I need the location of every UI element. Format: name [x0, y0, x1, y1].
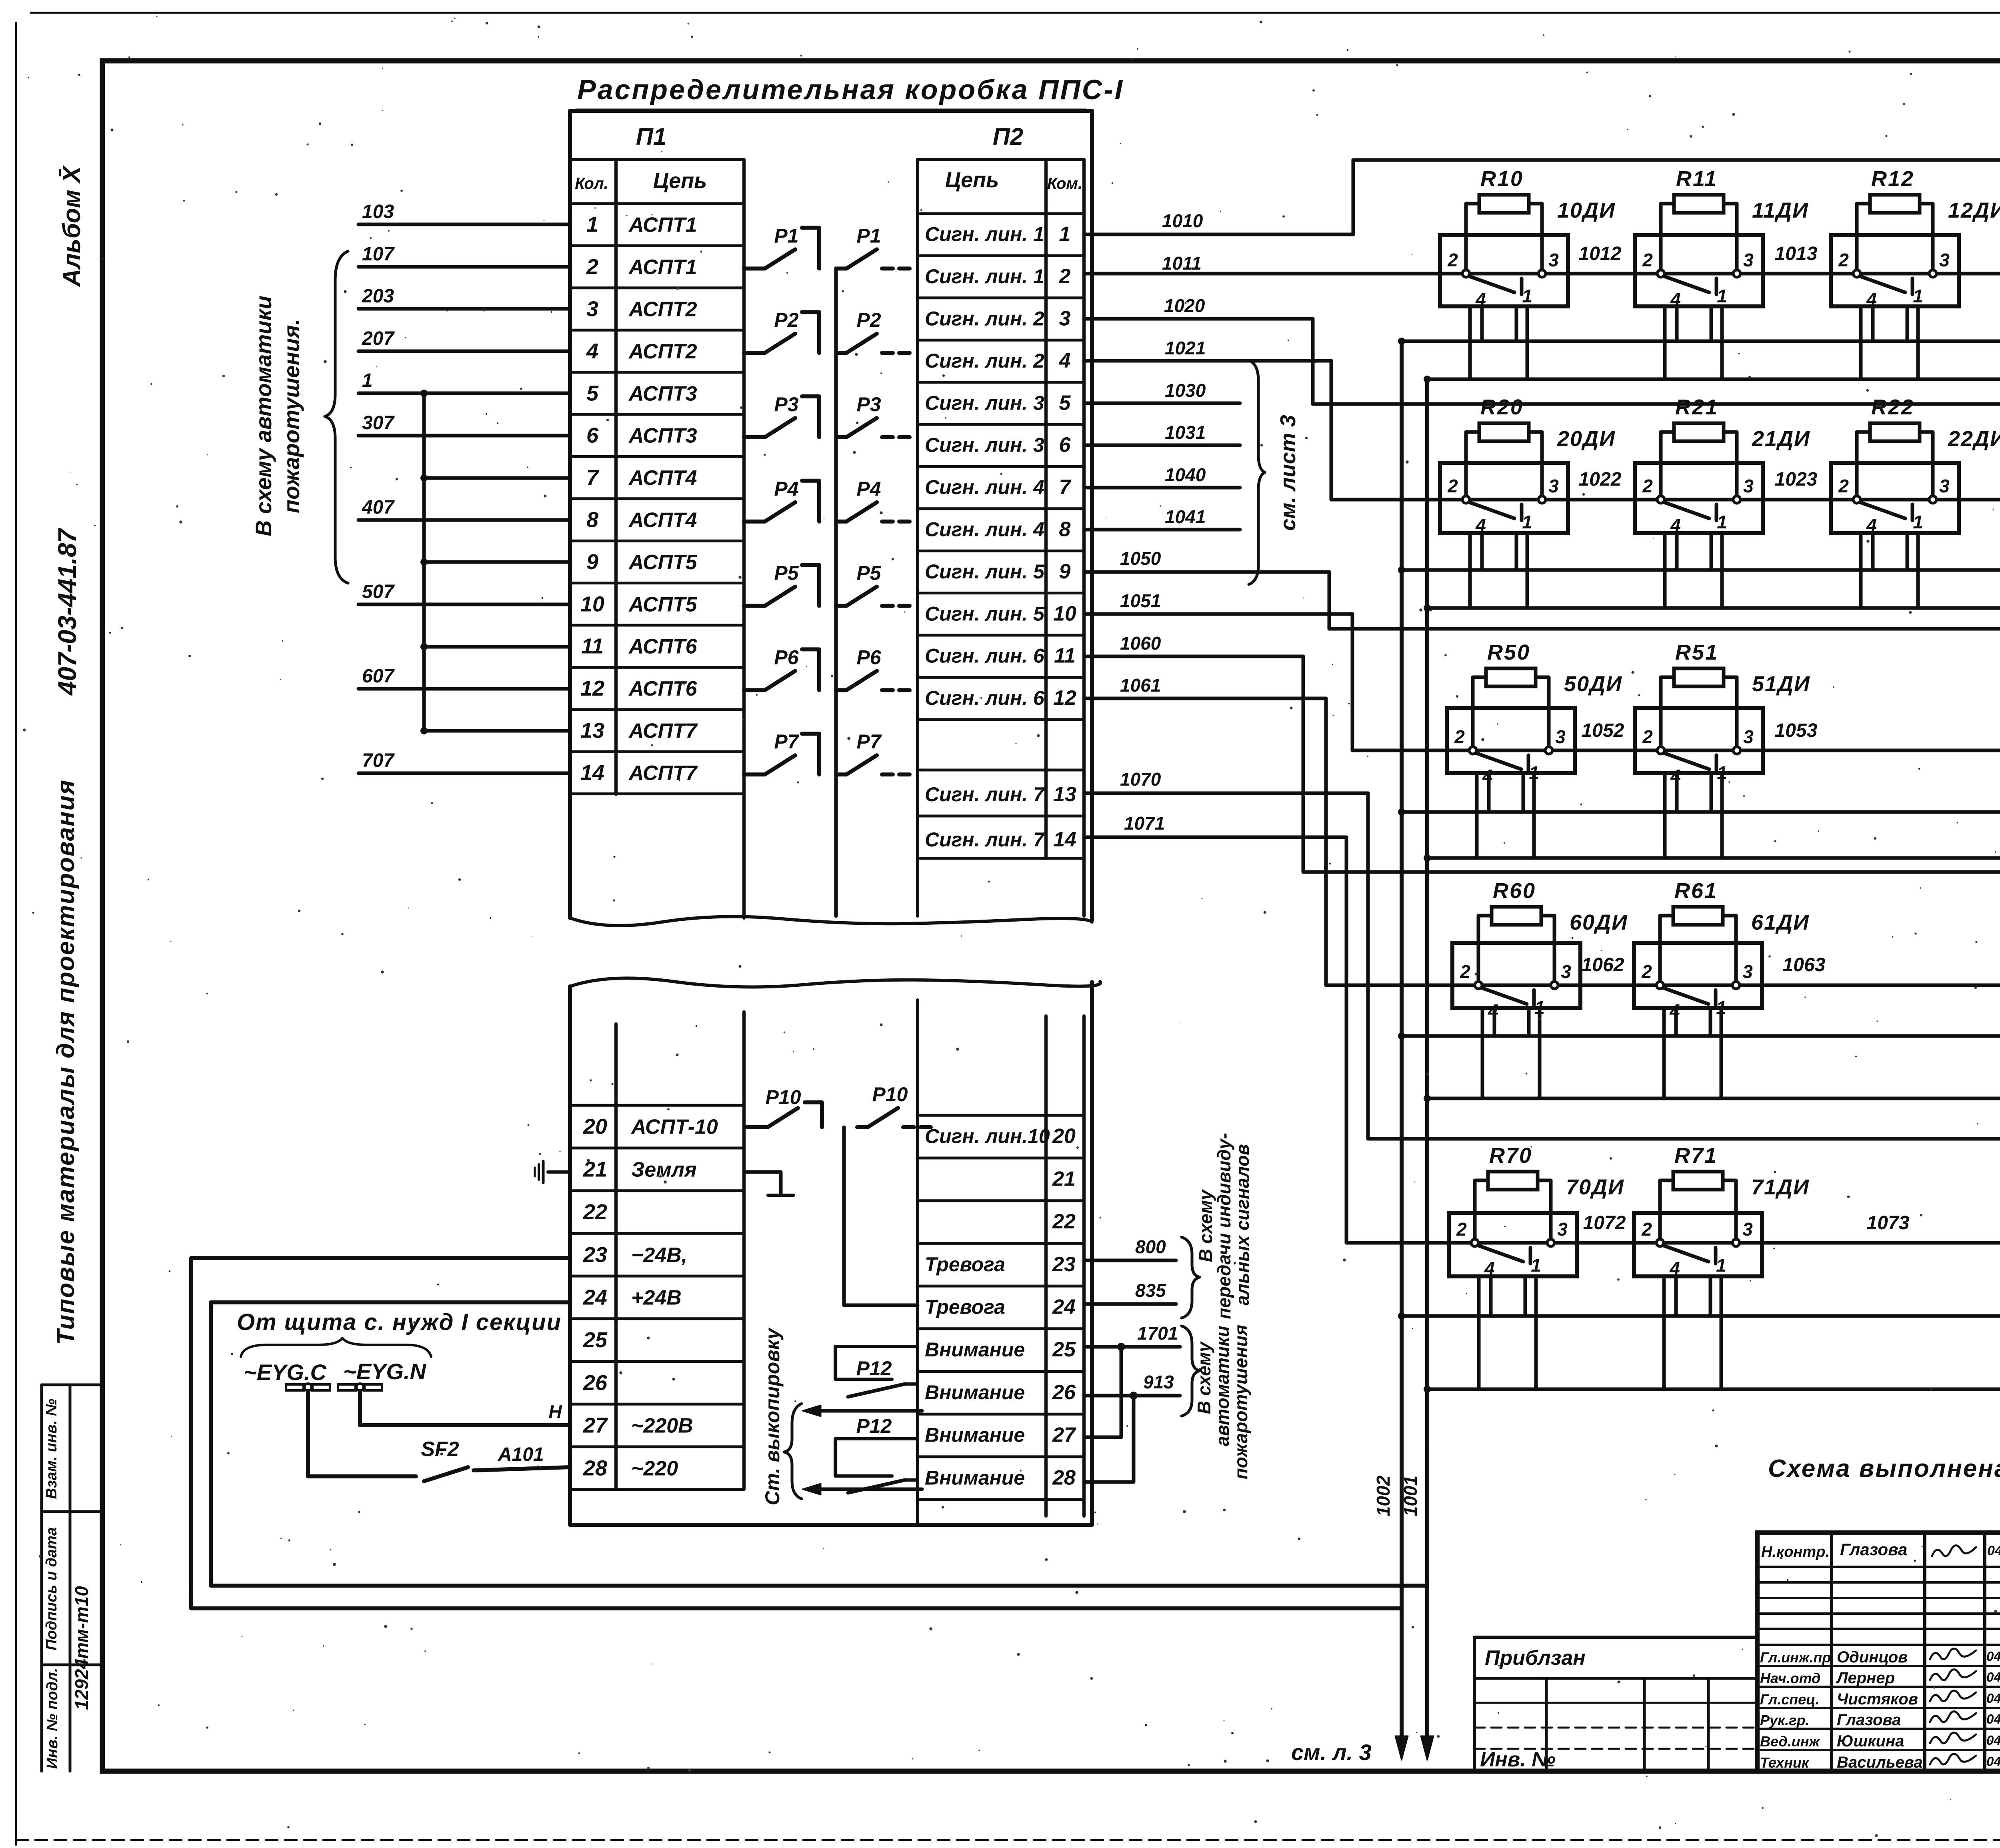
- svg-text:6: 6: [1059, 434, 1071, 457]
- svg-text:R50: R50: [1487, 640, 1530, 664]
- svg-text:1030: 1030: [1165, 380, 1206, 401]
- svg-text:3: 3: [1743, 726, 1754, 747]
- svg-text:Р4: Р4: [856, 478, 881, 500]
- svg-text:04.87: 04.87: [1986, 1691, 2000, 1706]
- svg-text:От щита с. нужд I секции: От щита с. нужд I секции: [237, 1309, 562, 1335]
- svg-text:1001: 1001: [1400, 1476, 1421, 1516]
- svg-text:3: 3: [1548, 250, 1559, 270]
- svg-text:1073: 1073: [1867, 1212, 1910, 1234]
- svg-text:800: 800: [1135, 1236, 1166, 1257]
- svg-text:АСПТ1: АСПТ1: [628, 256, 697, 279]
- svg-text:3: 3: [1059, 307, 1071, 330]
- svg-text:Р2: Р2: [856, 309, 881, 331]
- svg-text:913: 913: [1143, 1372, 1174, 1392]
- svg-text:АСПТ4: АСПТ4: [628, 466, 697, 490]
- svg-text:23: 23: [583, 1243, 607, 1267]
- svg-text:В схему автоматики: В схему автоматики: [251, 296, 276, 536]
- svg-text:60ДИ: 60ДИ: [1570, 910, 1628, 934]
- svg-text:14: 14: [1053, 828, 1076, 851]
- svg-text:5: 5: [1059, 391, 1071, 414]
- svg-text:Ст. выкопировку: Ст. выкопировку: [761, 1328, 784, 1506]
- svg-text:20: 20: [583, 1115, 607, 1139]
- svg-text:2: 2: [1447, 476, 1458, 496]
- svg-text:51ДИ: 51ДИ: [1752, 672, 1810, 696]
- svg-text:1002: 1002: [1373, 1475, 1394, 1516]
- svg-text:107: 107: [362, 244, 395, 265]
- svg-text:2: 2: [1454, 726, 1465, 747]
- svg-text:АСПТ6: АСПТ6: [628, 635, 698, 658]
- svg-text:12924тм-т10: 12924тм-т10: [71, 1586, 92, 1710]
- svg-text:1: 1: [1716, 1255, 1726, 1276]
- svg-text:1: 1: [1522, 512, 1532, 532]
- svg-text:3: 3: [1548, 476, 1559, 496]
- svg-text:4: 4: [586, 339, 598, 363]
- svg-text:22ДИ: 22ДИ: [1948, 427, 2000, 451]
- svg-text:1: 1: [362, 370, 373, 391]
- svg-text:Подпись и дата: Подпись и дата: [43, 1527, 60, 1650]
- svg-text:50ДИ: 50ДИ: [1564, 672, 1622, 696]
- svg-text:5: 5: [586, 381, 599, 405]
- svg-text:1: 1: [1717, 286, 1727, 306]
- svg-text:Внимание: Внимание: [925, 1381, 1025, 1404]
- svg-text:R60: R60: [1493, 879, 1536, 903]
- svg-text:Юшкина: Юшкина: [1837, 1732, 1904, 1750]
- svg-text:24: 24: [583, 1285, 607, 1309]
- svg-text:04.87: 04.87: [1986, 1754, 2000, 1769]
- svg-text:2: 2: [1456, 1219, 1467, 1240]
- svg-text:1051: 1051: [1120, 590, 1161, 611]
- svg-text:Глазова: Глазова: [1837, 1711, 1901, 1729]
- svg-text:04.87: 04.87: [1986, 1649, 2000, 1664]
- svg-text:1050: 1050: [1120, 548, 1161, 569]
- svg-text:3: 3: [1742, 961, 1753, 982]
- svg-text:26: 26: [583, 1371, 608, 1395]
- svg-text:Цепь: Цепь: [945, 168, 999, 192]
- svg-text:1060: 1060: [1120, 633, 1161, 654]
- svg-text:Р4: Р4: [774, 478, 798, 500]
- svg-text:04.87: 04.87: [1986, 1670, 2000, 1684]
- svg-text:8: 8: [1059, 518, 1071, 541]
- svg-text:507: 507: [362, 581, 395, 602]
- svg-text:Тревога: Тревога: [925, 1253, 1005, 1276]
- svg-text:Н: Н: [548, 1401, 562, 1422]
- svg-text:Сигн. лин. 6: Сигн. лин. 6: [925, 645, 1045, 667]
- svg-text:2: 2: [1460, 961, 1470, 982]
- svg-text:13: 13: [580, 719, 604, 743]
- svg-text:3: 3: [1743, 250, 1754, 270]
- svg-text:7: 7: [1059, 476, 1072, 499]
- svg-text:11: 11: [581, 634, 604, 658]
- svg-text:SF2: SF2: [421, 1438, 459, 1461]
- svg-text:2: 2: [1838, 476, 1849, 496]
- svg-text:Земля: Земля: [631, 1158, 697, 1181]
- svg-text:R22: R22: [1871, 395, 1914, 419]
- svg-text:607: 607: [362, 666, 395, 687]
- svg-text:R10: R10: [1480, 167, 1524, 191]
- svg-text:1701: 1701: [1137, 1323, 1178, 1344]
- svg-text:Сигн. лин. 2: Сигн. лин. 2: [925, 350, 1044, 372]
- svg-text:R21: R21: [1675, 395, 1718, 419]
- svg-text:Глазова: Глазова: [1840, 1540, 1907, 1559]
- svg-text:~220: ~220: [631, 1457, 678, 1480]
- svg-text:1020: 1020: [1164, 295, 1205, 316]
- svg-text:Сигн. лин.10: Сигн. лин.10: [925, 1125, 1050, 1148]
- svg-text:11ДИ: 11ДИ: [1752, 198, 1809, 222]
- svg-text:7: 7: [586, 466, 600, 490]
- svg-text:Сигн. лин. 3: Сигн. лин. 3: [925, 392, 1044, 414]
- svg-text:Сигн. лин. 4: Сигн. лин. 4: [925, 518, 1044, 541]
- svg-text:10: 10: [1053, 602, 1076, 625]
- svg-text:Типовые материалы для проек: Типовые материалы для проектирования: [52, 779, 80, 1345]
- svg-text:12: 12: [1053, 686, 1076, 710]
- svg-text:П2: П2: [993, 123, 1024, 150]
- svg-text:1: 1: [586, 213, 598, 237]
- svg-text:21: 21: [1052, 1167, 1076, 1190]
- svg-text:2: 2: [1642, 476, 1653, 496]
- svg-text:пожаротушения: пожаротушения: [1230, 1325, 1251, 1480]
- svg-text:2: 2: [586, 255, 598, 279]
- svg-text:Инв. № подл.: Инв. № подл.: [44, 1668, 61, 1769]
- svg-text:04.87: 04.87: [1986, 1733, 2000, 1748]
- svg-text:1070: 1070: [1120, 769, 1161, 790]
- svg-text:П1: П1: [636, 123, 667, 150]
- svg-text:1011: 1011: [1162, 253, 1202, 274]
- svg-text:АСПТ-10: АСПТ-10: [630, 1116, 718, 1139]
- svg-text:24: 24: [1052, 1295, 1076, 1318]
- svg-text:Тревога: Тревога: [925, 1296, 1005, 1318]
- svg-text:203: 203: [362, 286, 394, 307]
- svg-text:Сигн. лин. 5: Сигн. лин. 5: [925, 560, 1045, 583]
- svg-text:3: 3: [586, 297, 598, 321]
- svg-text:~EYG.N: ~EYG.N: [343, 1359, 427, 1384]
- svg-text:см. л. 3: см. л. 3: [1291, 1740, 1372, 1765]
- svg-text:407: 407: [362, 497, 395, 518]
- svg-text:22: 22: [1052, 1210, 1076, 1233]
- svg-text:2: 2: [1641, 961, 1652, 982]
- svg-text:Цепь: Цепь: [653, 169, 707, 193]
- svg-text:Внимание: Внимание: [925, 1338, 1025, 1361]
- svg-text:R20: R20: [1480, 395, 1524, 419]
- svg-text:407-03-441.87: 407-03-441.87: [53, 527, 82, 696]
- svg-text:1052: 1052: [1582, 720, 1624, 741]
- svg-text:21ДИ: 21ДИ: [1752, 427, 1810, 451]
- svg-text:Р10: Р10: [766, 1086, 801, 1108]
- svg-text:10ДИ: 10ДИ: [1557, 198, 1616, 222]
- svg-text:23: 23: [1052, 1253, 1076, 1276]
- svg-text:2: 2: [1059, 265, 1071, 288]
- svg-text:1061: 1061: [1120, 675, 1161, 696]
- svg-text:Сигн. лин. 7: Сигн. лин. 7: [925, 783, 1045, 806]
- svg-text:27: 27: [1052, 1424, 1076, 1447]
- svg-text:2: 2: [1641, 1219, 1652, 1240]
- svg-text:1: 1: [1059, 223, 1071, 246]
- svg-text:Вед.инж: Вед.инж: [1760, 1733, 1820, 1750]
- svg-text:2: 2: [1642, 250, 1653, 270]
- svg-text:Н.контр.: Н.контр.: [1761, 1544, 1830, 1560]
- svg-text:АСПТ6: АСПТ6: [628, 677, 698, 700]
- svg-text:1: 1: [1913, 512, 1923, 532]
- svg-text:2: 2: [1642, 726, 1653, 747]
- svg-text:1: 1: [1913, 286, 1923, 306]
- svg-text:1010: 1010: [1162, 210, 1203, 231]
- svg-text:3: 3: [1742, 1219, 1753, 1240]
- svg-text:Ком.: Ком.: [1047, 175, 1082, 192]
- svg-text:АСПТ7: АСПТ7: [628, 720, 698, 743]
- svg-text:71ДИ: 71ДИ: [1751, 1175, 1810, 1199]
- svg-text:Р3: Р3: [856, 393, 881, 416]
- svg-text:835: 835: [1135, 1280, 1166, 1301]
- svg-text:3: 3: [1555, 726, 1566, 747]
- svg-text:АСПТ2: АСПТ2: [628, 298, 697, 321]
- svg-text:Гл.спец.: Гл.спец.: [1760, 1691, 1819, 1708]
- svg-text:12ДИ: 12ДИ: [1948, 198, 2000, 222]
- svg-text:~220В: ~220В: [631, 1414, 693, 1438]
- svg-text:Сигн. лин. 7: Сигн. лин. 7: [925, 828, 1045, 851]
- svg-text:Внимание: Внимание: [925, 1424, 1025, 1446]
- svg-text:В схему: В схему: [1194, 1341, 1214, 1414]
- svg-text:Схема выполнена на листах: Схема выполнена на листах 3,4.: [1768, 1455, 2000, 1482]
- svg-text:АСПТ1: АСПТ1: [628, 214, 697, 237]
- svg-text:Гл.инж.пр: Гл.инж.пр: [1760, 1649, 1831, 1666]
- svg-text:1013: 1013: [1775, 243, 1818, 264]
- svg-text:25: 25: [1052, 1338, 1076, 1361]
- svg-text:В схему: В схему: [1195, 1189, 1216, 1262]
- svg-text:А101: А101: [498, 1444, 544, 1465]
- svg-text:1072: 1072: [1583, 1212, 1626, 1234]
- svg-text:1063: 1063: [1783, 954, 1826, 976]
- svg-text:Р6: Р6: [774, 646, 799, 668]
- svg-text:Р5: Р5: [774, 562, 799, 584]
- svg-text:1053: 1053: [1775, 720, 1818, 741]
- svg-text:АСПТ4: АСПТ4: [628, 509, 697, 532]
- svg-text:АСПТ3: АСПТ3: [628, 382, 697, 405]
- svg-text:Р10: Р10: [872, 1083, 908, 1106]
- svg-text:4: 4: [1059, 349, 1071, 372]
- svg-text:пожаротушения.: пожаротушения.: [279, 319, 304, 513]
- svg-text:3: 3: [1939, 476, 1950, 496]
- svg-text:Р12: Р12: [856, 1357, 892, 1380]
- svg-text:R61: R61: [1674, 879, 1718, 903]
- svg-text:2: 2: [1447, 250, 1458, 270]
- svg-text:Сигн. лин. 2: Сигн. лин. 2: [925, 308, 1044, 330]
- svg-text:12: 12: [580, 676, 604, 700]
- svg-text:Альбом X̄: Альбом X̄: [58, 165, 86, 288]
- svg-text:передачи индивиду-: передачи индивиду-: [1214, 1133, 1234, 1319]
- svg-text:Лернер: Лернер: [1836, 1669, 1895, 1687]
- svg-text:8: 8: [586, 508, 598, 532]
- svg-text:26: 26: [1052, 1381, 1076, 1404]
- svg-text:14: 14: [580, 761, 604, 785]
- svg-text:1023: 1023: [1775, 469, 1818, 490]
- svg-text:307: 307: [362, 412, 395, 434]
- svg-text:R51: R51: [1675, 640, 1718, 664]
- svg-text:1062: 1062: [1582, 954, 1624, 976]
- svg-text:Нач.отд: Нач.отд: [1760, 1670, 1820, 1686]
- svg-text:707: 707: [362, 750, 395, 771]
- svg-text:Техник: Техник: [1760, 1754, 1810, 1771]
- svg-text:11: 11: [1054, 644, 1076, 668]
- svg-text:−24В,: −24В,: [631, 1244, 687, 1267]
- svg-text:АСПТ2: АСПТ2: [628, 340, 697, 363]
- svg-text:Распределительная коробка П: Распределительная коробка ППС-I: [577, 74, 1124, 105]
- svg-text:R12: R12: [1871, 167, 1914, 191]
- svg-text:2: 2: [1838, 250, 1849, 270]
- svg-text:1022: 1022: [1579, 469, 1622, 490]
- svg-text:1: 1: [1531, 1255, 1541, 1276]
- svg-text:70ДИ: 70ДИ: [1566, 1175, 1624, 1199]
- svg-text:АСПТ7: АСПТ7: [628, 762, 698, 785]
- svg-text:1021: 1021: [1165, 338, 1206, 358]
- svg-text:Рук.гр.: Рук.гр.: [1760, 1712, 1810, 1728]
- svg-text:R11: R11: [1676, 167, 1718, 191]
- svg-text:~EYG.C: ~EYG.C: [244, 1360, 327, 1385]
- svg-text:13: 13: [1053, 783, 1076, 806]
- svg-text:Р3: Р3: [774, 393, 798, 416]
- svg-text:Р1: Р1: [856, 224, 881, 247]
- svg-text:Р6: Р6: [856, 646, 881, 668]
- svg-text:Инв. №: Инв. №: [1480, 1748, 1556, 1771]
- svg-text:Сигн. лин. 6: Сигн. лин. 6: [925, 687, 1045, 709]
- svg-text:АСПТ3: АСПТ3: [628, 424, 697, 448]
- svg-text:1041: 1041: [1165, 506, 1206, 527]
- svg-text:Кол.: Кол.: [575, 175, 608, 192]
- svg-text:1012: 1012: [1579, 243, 1622, 264]
- svg-text:1: 1: [1522, 286, 1532, 306]
- svg-text:Взам. инв. №: Взам. инв. №: [43, 1399, 60, 1499]
- svg-text:R71: R71: [1674, 1144, 1718, 1168]
- svg-text:альных сигналов: альных сигналов: [1232, 1144, 1253, 1306]
- svg-text:27: 27: [583, 1414, 608, 1438]
- svg-text:04.87: 04.87: [1987, 1543, 2000, 1558]
- svg-text:10: 10: [580, 592, 604, 616]
- svg-text:см. лист 3: см. лист 3: [1276, 415, 1300, 531]
- svg-text:Приблзан: Приблзан: [1485, 1646, 1586, 1670]
- svg-text:Р5: Р5: [856, 562, 881, 584]
- svg-text:R70: R70: [1489, 1144, 1532, 1168]
- svg-text:3: 3: [1939, 250, 1950, 270]
- svg-text:АСПТ5: АСПТ5: [628, 551, 698, 574]
- svg-text:3: 3: [1561, 961, 1571, 982]
- svg-text:207: 207: [362, 328, 395, 349]
- svg-text:АСПТ5: АСПТ5: [628, 593, 698, 616]
- svg-text:Сигн. лин. 4: Сигн. лин. 4: [925, 476, 1044, 498]
- svg-text:Р7: Р7: [774, 730, 799, 753]
- svg-text:Сигн. лин. 1: Сигн. лин. 1: [925, 265, 1044, 288]
- svg-text:1071: 1071: [1124, 813, 1165, 834]
- svg-text:Р1: Р1: [774, 224, 798, 247]
- svg-text:1040: 1040: [1165, 464, 1206, 485]
- svg-text:1: 1: [1717, 512, 1727, 532]
- svg-text:3: 3: [1743, 476, 1754, 496]
- svg-text:20: 20: [1052, 1125, 1076, 1148]
- svg-text:20ДИ: 20ДИ: [1557, 427, 1616, 451]
- svg-text:Сигн. лин. 3: Сигн. лин. 3: [925, 434, 1044, 456]
- svg-text:Сигн. лин. 1: Сигн. лин. 1: [925, 223, 1044, 246]
- svg-text:103: 103: [362, 201, 394, 222]
- svg-text:6: 6: [586, 424, 599, 448]
- svg-text:Р7: Р7: [856, 730, 882, 753]
- svg-text:9: 9: [586, 550, 598, 574]
- svg-text:04.87: 04.87: [1986, 1712, 2000, 1726]
- svg-text:Внимание: Внимание: [925, 1466, 1025, 1489]
- svg-text:21: 21: [583, 1157, 607, 1181]
- svg-text:9: 9: [1059, 560, 1071, 583]
- svg-text:3: 3: [1557, 1219, 1568, 1240]
- svg-text:22: 22: [583, 1200, 607, 1224]
- svg-text:автоматики: автоматики: [1212, 1326, 1233, 1446]
- svg-text:Сигн. лин. 5: Сигн. лин. 5: [925, 602, 1045, 625]
- svg-text:Р2: Р2: [774, 309, 798, 331]
- svg-text:1031: 1031: [1165, 422, 1206, 443]
- svg-text:61ДИ: 61ДИ: [1751, 910, 1810, 934]
- svg-text:25: 25: [583, 1328, 608, 1352]
- svg-text:Одинцов: Одинцов: [1837, 1648, 1908, 1666]
- svg-text:+24В: +24В: [631, 1286, 682, 1309]
- svg-text:28: 28: [583, 1456, 607, 1480]
- svg-text:28: 28: [1052, 1466, 1076, 1489]
- svg-text:Чистяков: Чистяков: [1837, 1690, 1918, 1708]
- svg-text:Р12: Р12: [856, 1415, 892, 1437]
- svg-text:Васильева: Васильева: [1837, 1754, 1923, 1771]
